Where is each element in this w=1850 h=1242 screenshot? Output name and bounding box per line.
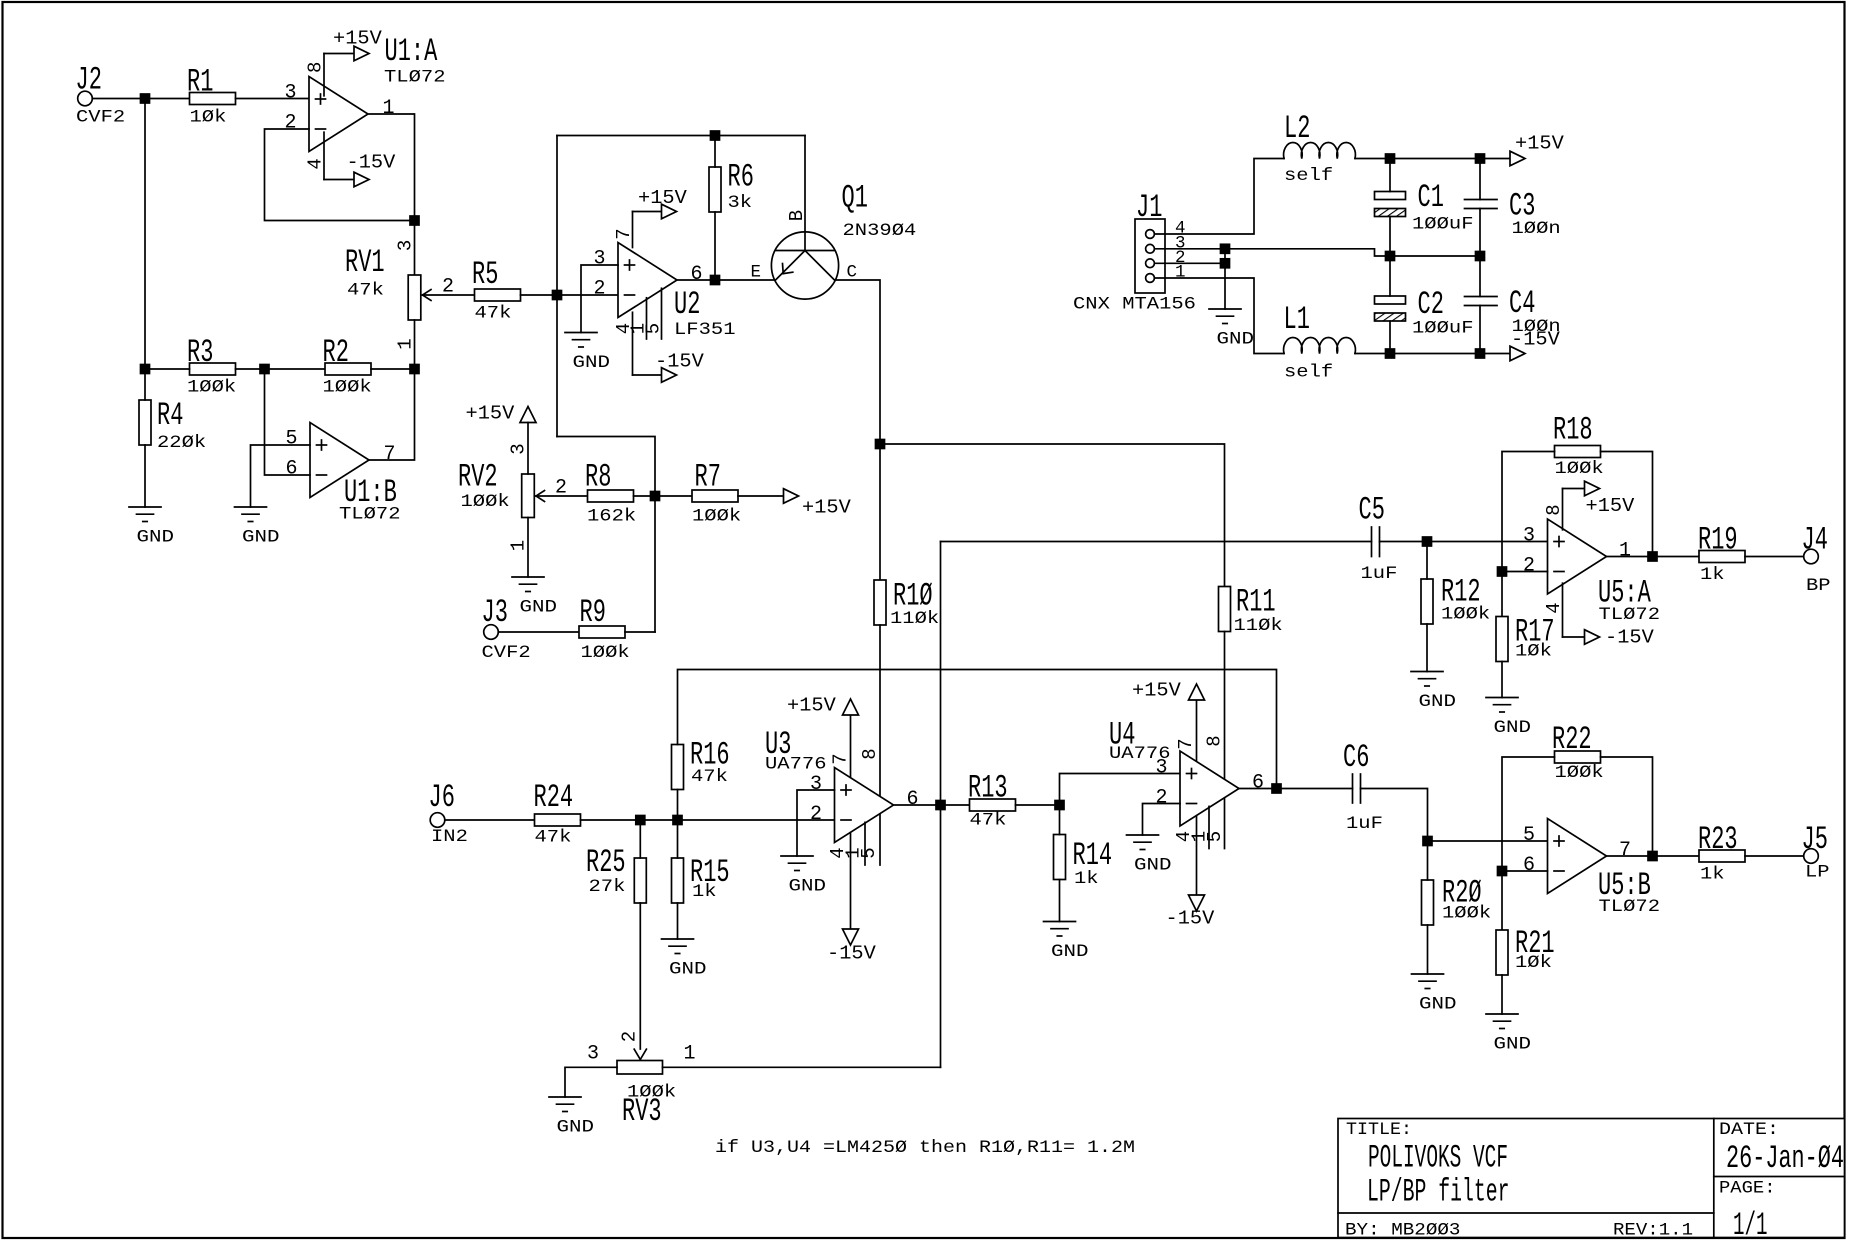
connector J4 (BP out): [1802, 522, 1831, 597]
svg-text:GND: GND: [1494, 1035, 1532, 1055]
svg-text:1uF: 1uF: [1361, 564, 1398, 584]
svg-text:1k: 1k: [1074, 869, 1099, 889]
connector J5 (LP out): [1802, 821, 1830, 883]
svg-text:GND: GND: [137, 528, 175, 548]
svg-text:+15V: +15V: [333, 28, 382, 50]
wire: J6 to R24: [445, 819, 535, 821]
wire: J1 pin 1 to L1: [1155, 278, 1285, 354]
svg-text:7: 7: [830, 753, 852, 764]
svg-text:RV1: RV1: [345, 244, 385, 281]
wire: junction down to R3 row: [144, 99, 146, 370]
wire: R23 to J5: [1745, 855, 1804, 857]
svg-text:GND: GND: [1419, 995, 1457, 1015]
wire: R1 to U1:A pin 3: [236, 98, 310, 100]
node: C2 bottom: [1386, 349, 1395, 358]
svg-text:3: 3: [395, 240, 417, 251]
wire: R22 feedback right: [1601, 757, 1653, 856]
wire: U1:A output down to feedback/RV1: [369, 114, 415, 275]
wire: R4 to ground: [144, 445, 146, 507]
wire: U2 output to Q1 emitter: [677, 279, 775, 281]
wire: R13 to U4 node: [1016, 804, 1060, 806]
svg-text:6: 6: [1252, 772, 1264, 795]
op-amp U3: [765, 726, 919, 865]
node: R5/U2-pin2/feedback junction: [553, 291, 562, 300]
svg-text:+15V: +15V: [802, 497, 851, 519]
svg-text:1ØØuF: 1ØØuF: [1412, 318, 1474, 338]
svg-text:R13: R13: [968, 770, 1008, 807]
resistor R1: [187, 64, 236, 128]
svg-text:J5: J5: [1802, 821, 1828, 858]
svg-text:2N39Ø4: 2N39Ø4: [843, 221, 917, 241]
svg-text:BY: MB2ØØ3: BY: MB2ØØ3: [1345, 1221, 1461, 1241]
svg-text:1ØØuF: 1ØØuF: [1412, 215, 1474, 235]
op-amp U4: [1109, 717, 1264, 849]
ground (U1:B pin 5): [235, 506, 267, 508]
svg-text:1: 1: [1619, 540, 1631, 563]
connector J2: [76, 61, 126, 127]
svg-text:J6: J6: [429, 779, 455, 816]
svg-text:1Øk: 1Øk: [1515, 642, 1552, 662]
wire: RV2 wiper to R8: [536, 495, 588, 497]
power +15V (R7): [738, 489, 851, 519]
svg-text:2: 2: [1523, 555, 1535, 578]
transistor Q1 2N3904: [751, 180, 917, 300]
wire: U3 output to R13: [895, 804, 970, 806]
svg-text:TITLE:: TITLE:: [1346, 1120, 1412, 1140]
svg-text:1ØØn: 1ØØn: [1512, 219, 1561, 239]
svg-text:5: 5: [1523, 824, 1535, 847]
svg-text:1/1: 1/1: [1733, 1207, 1768, 1242]
resistor R10: [874, 578, 939, 630]
resistor R11: [1219, 584, 1283, 637]
svg-text:-15V: -15V: [827, 943, 876, 965]
svg-text:3: 3: [594, 248, 606, 271]
svg-text:TLØ72: TLØ72: [1599, 605, 1661, 625]
svg-text:R7: R7: [695, 459, 721, 496]
svg-text:11Øk: 11Øk: [890, 609, 939, 629]
power -15V (U5:A pin 4): [1563, 583, 1655, 648]
svg-text:8: 8: [859, 748, 881, 759]
wire: feedback vertical at x=557: [556, 136, 558, 437]
wire: U4 output to C6: [1240, 788, 1353, 790]
svg-text:7: 7: [384, 443, 396, 466]
svg-text:1ØØk: 1ØØk: [323, 378, 372, 398]
power -15V (U4 pin 4): [1166, 816, 1215, 929]
ground (R20): [1412, 973, 1444, 975]
wire: R22 feedback left: [1502, 757, 1555, 871]
resistor R23: [1698, 821, 1745, 885]
svg-text:R19: R19: [1698, 522, 1738, 559]
svg-text:IN2: IN2: [431, 827, 468, 847]
connector J6: [429, 779, 468, 847]
svg-text:1ØØk: 1ØØk: [581, 643, 630, 663]
potentiometer RV3: [587, 1043, 696, 1131]
svg-text:BP: BP: [1806, 576, 1831, 596]
svg-text:CNX MTA156: CNX MTA156: [1073, 295, 1196, 315]
node: R16/R15 tap: [673, 816, 682, 825]
node: U2 out/R6 junction: [711, 276, 720, 285]
svg-text:3: 3: [285, 82, 297, 105]
svg-text:1ØØk: 1ØØk: [1555, 459, 1604, 479]
node: C1 top: [1386, 154, 1395, 163]
svg-text:3: 3: [587, 1043, 599, 1066]
wire: U2 pin 2 stub: [557, 294, 618, 296]
resistor R9: [579, 594, 630, 663]
resistor R7: [692, 459, 741, 527]
resistor R8: [585, 459, 636, 527]
svg-text:2: 2: [619, 1031, 641, 1042]
resistor R4: [139, 397, 206, 453]
svg-text:C5: C5: [1359, 492, 1385, 529]
wire: R8 to R7: [634, 495, 693, 497]
svg-text:3k: 3k: [728, 193, 753, 213]
power -15V (U2 pin 4): [633, 312, 705, 382]
svg-text:3: 3: [508, 443, 530, 454]
svg-text:2: 2: [810, 803, 822, 826]
wire: RV3 pin 3 to ground: [565, 1067, 617, 1097]
wire: node up to U4 pin 3: [1060, 774, 1181, 806]
node: C3 top: [1476, 154, 1485, 163]
resistor R6: [709, 159, 754, 214]
svg-text:GND: GND: [242, 528, 280, 548]
svg-text:-15V: -15V: [1605, 627, 1654, 649]
node: C1/C2 mid: [1386, 252, 1395, 261]
svg-text:if U3,U4 =LM425Ø then R1Ø,R11=: if U3,U4 =LM425Ø then R1Ø,R11= 1.2M: [715, 1138, 1135, 1158]
svg-text:1ØØk: 1ØØk: [1442, 904, 1491, 924]
svg-text:1: 1: [684, 1043, 696, 1066]
resistor R2: [323, 334, 372, 398]
wire: top feedback line to Q1 base: [557, 135, 805, 137]
svg-text:R9: R9: [580, 594, 606, 631]
node: U4 out / LP feedback junction: [1272, 784, 1281, 793]
wire: BP node to C5: [941, 541, 1372, 543]
svg-text:+15V: +15V: [1515, 133, 1564, 155]
ground (R15): [662, 938, 694, 940]
svg-text:GND: GND: [1494, 718, 1532, 738]
wire: feedback bottom jog: [557, 437, 655, 633]
svg-text:7: 7: [1619, 839, 1631, 862]
svg-text:1k: 1k: [1700, 865, 1725, 885]
ground (R21): [1486, 1013, 1518, 1015]
svg-text:R3: R3: [187, 334, 213, 371]
svg-text:8: 8: [1204, 735, 1226, 746]
svg-text:+15V: +15V: [466, 403, 515, 425]
svg-text:Q1: Q1: [842, 180, 868, 217]
svg-text:REV:1.1: REV:1.1: [1613, 1221, 1693, 1241]
op-amp U5:B: [1523, 819, 1660, 918]
node: U5:A out junction: [1648, 552, 1657, 561]
ground (RV3): [549, 1096, 581, 1098]
wire: R6 to U2 output: [714, 212, 716, 280]
resistor R22: [1552, 721, 1604, 783]
svg-text:+15V: +15V: [638, 187, 687, 209]
capacitor C3: [1465, 159, 1561, 257]
wire: U5:A pin 2 stub: [1502, 571, 1548, 573]
resistor R25: [586, 820, 646, 903]
power -15V (rail): [1510, 329, 1560, 361]
wire: J1 pin 4 to L2: [1155, 159, 1285, 235]
connector J3: [482, 594, 531, 663]
ground (R14): [1044, 921, 1076, 923]
svg-text:TLØ72: TLØ72: [1599, 897, 1661, 917]
svg-text:GND: GND: [573, 353, 611, 373]
svg-text:27k: 27k: [589, 877, 626, 897]
power +15V (U5:A pin 8): [1563, 481, 1635, 530]
svg-text:U2: U2: [674, 286, 700, 323]
wire: RV1 bottom to R2 row: [414, 320, 416, 369]
wire: RV1 wiper to R5: [423, 294, 475, 296]
svg-text:5: 5: [1204, 831, 1226, 842]
power -15V (U1:A pin 4): [324, 132, 396, 187]
wire: U1:B pin 5 to ground: [251, 445, 311, 507]
wire: R25 down to RV3 wiper: [639, 903, 641, 1049]
resistor R24: [534, 779, 581, 848]
wire: R18 feedback right: [1601, 452, 1653, 557]
svg-text:J2: J2: [76, 61, 102, 98]
svg-text:R23: R23: [1698, 821, 1738, 858]
ground (RV2 pin 1): [512, 576, 544, 578]
wire: top line to R6: [714, 136, 716, 168]
title block frame: [1338, 1119, 1845, 1238]
svg-text:3: 3: [810, 773, 822, 796]
wire: R3 to R2: [236, 368, 326, 370]
ground (J1): [1209, 308, 1241, 310]
resistor R14: [1054, 805, 1113, 922]
node: U5:B out junction: [1648, 852, 1657, 861]
node: J2/R3/R4 junction: [141, 94, 150, 103]
power -15V (U3 pin 4): [827, 833, 876, 965]
op-amp U1:B: [286, 423, 401, 525]
resistor R20: [1422, 841, 1492, 974]
resistor R3: [187, 334, 236, 398]
svg-text:5: 5: [858, 847, 880, 858]
wire: J1 pin 2 tie to pin 3: [1155, 262, 1226, 264]
wire: R3/R2 node down to U1:B pin 6: [265, 369, 311, 475]
svg-text:1k: 1k: [1700, 565, 1725, 585]
svg-text:47k: 47k: [970, 811, 1007, 831]
ground (R4): [129, 506, 161, 508]
svg-text:UA776: UA776: [765, 755, 827, 775]
svg-text:1ØØk: 1ØØk: [187, 378, 236, 398]
svg-text:+15V: +15V: [787, 695, 836, 717]
power +15V (U4 pin 7): [1132, 680, 1205, 761]
svg-text:RV3: RV3: [622, 1093, 662, 1130]
svg-text:TLØ72: TLØ72: [339, 504, 401, 524]
power +15V (rail): [1510, 133, 1564, 166]
svg-text:L2: L2: [1284, 110, 1310, 147]
power +15V (U2 pin 7): [633, 187, 688, 248]
wire: capacitor midline: [1390, 255, 1480, 257]
svg-text:PAGE:: PAGE:: [1719, 1179, 1776, 1199]
capacitor C1: [1375, 159, 1474, 257]
resistor R21: [1496, 925, 1555, 1014]
wire: U5:B pin 6 stub: [1502, 870, 1548, 872]
resistor R16: [672, 737, 730, 821]
svg-text:GND: GND: [1134, 856, 1172, 876]
svg-text:LP: LP: [1805, 863, 1830, 883]
svg-text:R11: R11: [1236, 584, 1276, 621]
svg-text:1k: 1k: [692, 882, 717, 902]
svg-text:47k: 47k: [691, 767, 728, 787]
power +15V (U3 pin 7): [787, 695, 859, 778]
wire: Iset rail to R11: [880, 444, 1225, 587]
resistor R12: [1421, 542, 1490, 672]
svg-text:R1: R1: [187, 64, 213, 101]
capacitor C6: [1343, 739, 1383, 834]
node: U3 out / BP node junction: [936, 801, 945, 810]
wire: U3 pin 3 to ground: [797, 790, 835, 856]
wire: R24 to U3 pin 2: [581, 819, 835, 821]
wire: U5:A pin 2 down to R17: [1501, 572, 1503, 617]
svg-text:DATE:: DATE:: [1719, 1120, 1779, 1140]
power +15V (RV2 pin 3): [466, 403, 537, 425]
svg-text:J4: J4: [1802, 522, 1828, 559]
svg-text:GND: GND: [789, 877, 827, 897]
svg-text:LP/BP filter: LP/BP filter: [1367, 1174, 1510, 1211]
svg-text:1: 1: [1175, 263, 1186, 283]
svg-text:GND: GND: [557, 1118, 595, 1138]
ground (R12): [1411, 671, 1443, 673]
svg-text:GND: GND: [1051, 942, 1089, 962]
wire: Q1 collector to R10: [835, 280, 880, 580]
svg-text:R18: R18: [1553, 412, 1593, 449]
wire: C5 to U5:A pin 3: [1380, 541, 1548, 543]
svg-text:RV2: RV2: [458, 459, 498, 496]
svg-text:1Øk: 1Øk: [190, 107, 227, 127]
node: C5/R12 junction: [1423, 537, 1432, 546]
capacitor C4: [1465, 256, 1561, 354]
svg-text:J1: J1: [1136, 189, 1162, 226]
wire: U5:B output: [1607, 855, 1700, 857]
wire: BP node vertical (C5 / RV3): [940, 542, 942, 1068]
wire: RV3 pin 1 to BP node: [663, 1066, 941, 1068]
ground (U2 pin 3): [565, 332, 597, 334]
svg-text:1uF: 1uF: [1346, 814, 1383, 834]
ground (U4 pin 2): [1127, 834, 1159, 836]
svg-text:6: 6: [1523, 854, 1535, 877]
svg-text:-15V: -15V: [655, 351, 704, 373]
svg-text:1ØØk: 1ØØk: [461, 492, 510, 512]
svg-text:R2: R2: [323, 334, 349, 371]
node: U5:A pin 2 junction: [1498, 567, 1507, 576]
resistor R19: [1698, 522, 1745, 586]
potentiometer RV1: [345, 240, 454, 350]
inductor L2: [1284, 110, 1356, 186]
svg-text:47k: 47k: [535, 828, 572, 848]
node: C4 bottom: [1476, 349, 1485, 358]
svg-text:R22: R22: [1552, 721, 1592, 758]
ground (U3 pin 3): [781, 855, 813, 857]
wire: junction to R3: [145, 368, 190, 370]
wire: J1 pin 2 to ground: [1224, 263, 1226, 309]
wire: R5 to U2 pin 2 node: [521, 294, 558, 296]
op-amp U2: [594, 228, 736, 340]
svg-text:R8: R8: [585, 459, 611, 496]
potentiometer RV2: [458, 423, 567, 578]
node: U5:B pin 6 junction: [1498, 867, 1507, 876]
resistor R17: [1496, 614, 1555, 698]
connector J1 CNX MTA156: [1073, 189, 1196, 315]
node: pin2 tie: [1221, 259, 1230, 268]
wire: R18 feedback left: [1502, 452, 1555, 572]
wire: J3 to R9: [498, 631, 579, 633]
wire: R11 to U4 pin 8 (through symbol to pin 5 stub): [1224, 632, 1226, 849]
node: R25 tap: [636, 816, 645, 825]
capacitor C2: [1375, 256, 1474, 354]
svg-text:11Øk: 11Øk: [1234, 616, 1283, 636]
svg-text:E: E: [751, 262, 762, 282]
wire: C6 to U5:B pin 5: [1361, 789, 1548, 842]
svg-text:CVF2: CVF2: [482, 643, 531, 663]
svg-text:self: self: [1284, 166, 1333, 186]
svg-text:7: 7: [1175, 738, 1197, 749]
svg-text:GND: GND: [1419, 692, 1457, 712]
svg-text:1ØØk: 1ØØk: [692, 507, 741, 527]
node: R13/R14/U4-pin3 junction: [1055, 801, 1064, 810]
op-amp U1:A: [285, 33, 446, 170]
svg-text:CVF2: CVF2: [76, 107, 125, 127]
ground (R17): [1486, 697, 1518, 699]
capacitor C5: [1359, 492, 1398, 585]
svg-text:TLØ72: TLØ72: [384, 67, 446, 87]
wire: L2 to +15V rail: [1355, 158, 1510, 160]
svg-text:UA776: UA776: [1109, 744, 1171, 764]
svg-text:162k: 162k: [587, 507, 636, 527]
node: R8/R7/R9 junction: [651, 492, 660, 501]
inductor L1: [1284, 301, 1356, 383]
wire: L1 to -15V rail: [1355, 353, 1510, 355]
wire: U1:B output up to R2 node: [369, 369, 415, 460]
wire: feedback line to R16: [678, 670, 1277, 789]
svg-text:+15V: +15V: [1132, 680, 1181, 702]
power +15V (U1:A pin 8): [324, 28, 382, 96]
svg-text:R6: R6: [728, 159, 754, 196]
svg-text:R25: R25: [586, 844, 626, 881]
svg-text:6: 6: [691, 263, 703, 286]
svg-text:1ØØk: 1ØØk: [1441, 605, 1490, 625]
svg-text:3: 3: [1523, 525, 1535, 548]
wire: J2 to R1: [92, 98, 189, 100]
wire: R2 to RV1 junction: [371, 368, 415, 370]
node: U1:A output/feedback junction: [410, 216, 419, 225]
node: R2/RV1/U1:B-out junction: [410, 365, 419, 374]
node: R3/R4 junction: [141, 365, 150, 374]
svg-text:POLIVOKS VCF: POLIVOKS VCF: [1368, 1139, 1508, 1176]
svg-text:1ØØk: 1ØØk: [1555, 763, 1604, 783]
resistor R13: [968, 770, 1016, 831]
svg-text:47k: 47k: [475, 304, 512, 324]
node: C3/C4 mid: [1476, 252, 1485, 261]
node: R3/R2/U1:B junction: [260, 365, 269, 374]
svg-text:R24: R24: [534, 779, 574, 816]
svg-text:GND: GND: [1217, 330, 1255, 350]
svg-text:GND: GND: [520, 598, 558, 618]
svg-text:LF351: LF351: [674, 320, 736, 340]
wire: U2 pin 3 to ground: [581, 265, 618, 333]
wire: R10 to U3 pin 8 (through symbol to pin 5 stub): [879, 625, 881, 865]
svg-text:47k: 47k: [347, 281, 384, 301]
op-amp U5:A: [1523, 504, 1660, 625]
svg-text:2: 2: [1156, 787, 1168, 810]
svg-text:L1: L1: [1284, 301, 1310, 338]
svg-text:J3: J3: [482, 594, 508, 631]
svg-text:2: 2: [594, 278, 606, 301]
node: R6 top junction: [711, 131, 720, 140]
node: Q1 collector / Iset rail junction: [876, 440, 885, 449]
wire: U5:A output: [1607, 556, 1700, 558]
svg-text:1: 1: [395, 338, 417, 349]
node: pin3 tie: [1221, 244, 1230, 253]
